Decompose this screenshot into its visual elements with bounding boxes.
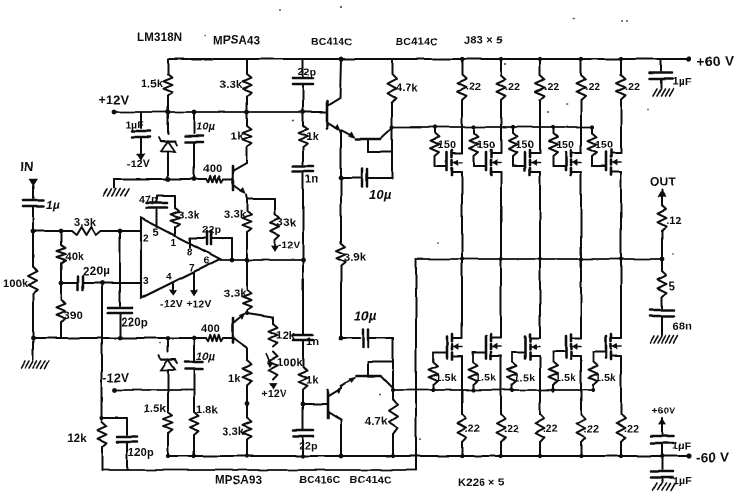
label 1.5k K226-3 [514, 372, 535, 384]
label 3.3k mid-upper [224, 209, 247, 221]
wire +12V bus [114, 111, 326, 113]
label 33k [277, 217, 297, 229]
svg-text:1k: 1k [231, 131, 244, 143]
pin 2 label [143, 233, 149, 244]
wire Q3 collector to rail [340, 59, 341, 98]
node OUT bus dot 3 [538, 257, 542, 261]
svg-text:1.5k: 1.5k [475, 372, 496, 384]
potentiometer 100k [266, 352, 278, 380]
svg-text:150: 150 [516, 139, 534, 151]
transistor Q2 MPSA93 [233, 313, 247, 348]
node center-output junction [301, 258, 306, 263]
resistor 1.5k gate K226-2 [469, 362, 478, 390]
resistor 150 gate J83-4 [549, 127, 558, 156]
svg-text:.22: .22 [543, 423, 558, 435]
resistor .22 source K226-3 [536, 362, 545, 456]
svg-text:10µ: 10µ [369, 187, 392, 202]
label 10u (top) [196, 121, 216, 133]
label .22 K226-3 lower [543, 423, 558, 435]
label 1.5k [141, 78, 164, 90]
capacitor 47p comp [147, 196, 175, 227]
svg-text:4.7k: 4.7k [396, 82, 419, 94]
node zener lower junction [166, 336, 171, 341]
svg-text:4: 4 [166, 272, 172, 283]
svg-text:.22: .22 [625, 81, 640, 93]
node center lower junction [301, 402, 306, 407]
label OUT [650, 175, 676, 189]
pin 3 label [143, 276, 149, 287]
resistor 1.5k (from +60V to +12V node) [164, 59, 173, 112]
wire Q5 collector to rail [340, 420, 342, 456]
label 4.7k lower [365, 416, 388, 428]
svg-text:1.5k: 1.5k [435, 372, 456, 384]
node lower rail dot K226-5 [619, 454, 623, 458]
svg-text:BC414C: BC414C [311, 36, 353, 48]
wire -12V to Q5 base [303, 403, 328, 405]
wire J83-5 source to OUT bus [620, 178, 622, 259]
node gate bus tap J83-4 [551, 125, 555, 129]
svg-text:12k: 12k [67, 433, 87, 445]
svg-text:1µF: 1µF [673, 475, 692, 487]
label 1.5k K226-1 [435, 372, 456, 384]
label 120p [128, 447, 154, 459]
label 3.3k mid-lower [224, 288, 247, 300]
svg-text:.22: .22 [544, 81, 559, 93]
node rail dot J83-4 [579, 57, 583, 61]
resistor 1k center upper [299, 112, 308, 164]
svg-text:1k: 1k [306, 375, 319, 387]
resistor 1k (MPSA43 collector) [243, 112, 252, 163]
label -60 V [696, 450, 729, 465]
svg-text:4.7k: 4.7k [365, 416, 388, 428]
label 220u [83, 266, 110, 278]
label J83 x 5 [464, 35, 502, 47]
label 5 [669, 281, 676, 293]
svg-text:1.5k: 1.5k [514, 372, 535, 384]
resistor 12k feedback [98, 422, 107, 470]
label 390 [64, 310, 83, 322]
svg-text:OUT: OUT [650, 175, 676, 189]
svg-text:3: 3 [143, 276, 149, 287]
node -12V terminal dot [113, 388, 118, 393]
speck marks [159, 6, 674, 440]
node Q4 collector junction [390, 125, 394, 129]
label 1k MPSA93 [228, 373, 241, 385]
wire K226-1 source to OUT bus [461, 259, 463, 333]
svg-text:3.9k: 3.9k [344, 252, 367, 264]
resistor 150 gate J83-2 [470, 127, 479, 156]
node Q5 rail dot [339, 454, 344, 459]
label BC414C (second) [396, 36, 438, 48]
label 10u lower drive [354, 308, 377, 323]
mosfet K226-5 [593, 333, 621, 362]
svg-text:1n: 1n [305, 173, 318, 185]
svg-text:+12V: +12V [261, 388, 287, 400]
resistor .12 [658, 205, 667, 259]
node gate bus tap J83-1 [433, 125, 437, 129]
label 3.3k bottom [222, 426, 245, 438]
svg-text:390: 390 [64, 310, 83, 322]
label 47p [139, 194, 158, 206]
capacitor 10u (+12V bypass) [185, 110, 203, 179]
resistor 1.5k gate K226-5 [589, 362, 598, 390]
capacitor 22p lower [293, 404, 313, 456]
resistor 150 gate J83-5 [588, 127, 597, 156]
wire +60V top supply rail [168, 58, 689, 60]
capacitor 1u input [23, 200, 43, 231]
resistor 1.5k gate K226-4 [549, 362, 558, 390]
transistor Q5 BC416C bottom [328, 387, 342, 421]
resistor 4.7k upper [388, 59, 397, 127]
label BC414C bottom [350, 474, 392, 486]
mosfet K226-3 [512, 333, 540, 362]
svg-text:.22: .22 [584, 423, 599, 435]
capacitor 68n [650, 310, 674, 335]
label 3.3k input [74, 217, 97, 229]
node lower rail dot K226-2 [499, 454, 503, 458]
resistor .22 source K226-2 [497, 362, 506, 456]
resistor 3.3k comp [171, 196, 180, 236]
pin 5 label [153, 227, 159, 239]
svg-text:400: 400 [203, 163, 222, 175]
resistor 3.3k (to -60V rail) [243, 404, 252, 456]
node lower gate bus tap K226-5 [591, 388, 595, 392]
svg-text:MPSA93: MPSA93 [215, 475, 262, 487]
wire -12V bus [115, 389, 194, 391]
svg-text:40k: 40k [65, 251, 85, 263]
resistor 1.5k lower [164, 390, 173, 456]
label .12 [666, 215, 682, 227]
wire J83-4 source to OUT bus [580, 178, 582, 259]
label 10u upper drive [369, 187, 392, 202]
transistor Q1 MPSA43 [233, 163, 247, 199]
zener diode (+12V clamp) [159, 110, 177, 179]
resistor 1.5k gate K226-1 [429, 362, 438, 390]
capacitor 1n lower [293, 260, 313, 340]
node OUT bus dot 1 [460, 257, 464, 261]
svg-text:.22: .22 [466, 81, 481, 93]
wire MPSA93 emitter branch [247, 313, 273, 324]
wire K226-2 source to OUT bus [500, 259, 502, 333]
node 1k/-wire junction [245, 402, 250, 407]
node 4.7k rail dot lower [391, 454, 395, 458]
svg-text:BC416C: BC416C [299, 474, 341, 486]
svg-text:-60 V: -60 V [696, 450, 729, 465]
label .22 K226-5 lower [624, 423, 639, 435]
label IN [20, 159, 33, 174]
transistor Q3 BC414C top [327, 98, 341, 131]
svg-text:100k: 100k [3, 278, 29, 290]
node OUT bus dot 2 [499, 257, 503, 261]
label BC416C [299, 474, 341, 486]
node OUT bus dot 4 [579, 257, 583, 261]
svg-text:MPSA43: MPSA43 [213, 35, 260, 47]
mosfet J83-5 [592, 148, 621, 178]
label 100k [3, 278, 29, 290]
capacitor 1uF +60V decoupling [650, 59, 672, 88]
capacitor 1uF upper at -60V [651, 418, 673, 456]
svg-text:1k: 1k [228, 373, 241, 385]
label LM318N [137, 32, 182, 44]
label .22 K226-1 lower [465, 423, 480, 435]
zener diode (-12V clamp) [159, 338, 177, 390]
node gate bus tap J83-3 [511, 125, 515, 129]
svg-text:22p: 22p [202, 224, 221, 236]
svg-text:1.5k: 1.5k [555, 372, 576, 384]
node feedback tap on pin3 wire [100, 281, 105, 286]
resistor 100k input to ground [29, 231, 38, 338]
svg-text:1µF: 1µF [125, 119, 144, 131]
label .22 J83-3 [544, 81, 559, 93]
node MPSA93 emitter junction [245, 311, 249, 315]
svg-text:22p: 22p [298, 66, 317, 78]
svg-text:3.3k: 3.3k [224, 209, 247, 221]
node OUT bus dot 5 [619, 257, 623, 261]
label 1k center lower [306, 375, 319, 387]
node lower gate bus tap K226-4 [551, 388, 555, 392]
resistor 40k [57, 231, 66, 283]
svg-text:10µ: 10µ [354, 308, 377, 323]
svg-text:K226 × 5: K226 × 5 [458, 477, 505, 489]
capacitor 120p [117, 418, 137, 470]
label 150 J83-3 [516, 139, 534, 151]
mosfet J83-1 [435, 148, 462, 178]
label 150 J83-1 [438, 139, 456, 151]
wire MPSA43 emitter branch [247, 199, 275, 214]
label 150 J83-2 [477, 139, 495, 151]
label 220p [121, 317, 148, 329]
pin 1 label [171, 238, 177, 249]
svg-text:-12V: -12V [127, 158, 150, 170]
node output-3.3k junction [245, 258, 250, 263]
svg-text:5: 5 [153, 227, 159, 239]
label .22 J83-5 [625, 81, 640, 93]
pin 7 label [189, 263, 195, 274]
svg-text:3.3k: 3.3k [222, 426, 245, 438]
node rail dot J83-5 [619, 57, 623, 61]
svg-text:-12V: -12V [278, 240, 300, 251]
resistor .22 source K226-1 [458, 362, 467, 456]
capacitor 22p (rail to +12V wire) [293, 59, 313, 112]
node 3.3k rail dot [245, 454, 249, 458]
resistor 3.3k input [72, 227, 101, 235]
resistor 5 (zobel) [658, 259, 667, 308]
label 1uF -60V upper [672, 440, 691, 452]
wire upper ground bus [114, 178, 206, 180]
label 1u input [46, 198, 60, 212]
node 220p-ground junction [118, 336, 123, 341]
svg-text:220µ: 220µ [83, 266, 110, 278]
svg-text:+12V: +12V [99, 93, 130, 107]
label -12V 33k [278, 240, 300, 251]
label 100k pot [277, 357, 303, 369]
label BC414C (first) [311, 36, 353, 48]
svg-text:1n: 1n [306, 336, 319, 348]
wire 4.7k column lower [392, 338, 394, 399]
resistor .22 drain J83-3 [536, 59, 545, 148]
svg-text:.12: .12 [666, 215, 682, 227]
resistor 1k center lower [299, 340, 308, 404]
node 40k-390-220u junction [59, 281, 64, 286]
svg-text:-12V: -12V [160, 298, 183, 310]
svg-text:1.5k: 1.5k [595, 372, 616, 384]
pin 6 label [203, 255, 209, 267]
label 1n upper [305, 173, 318, 185]
label 22p comp [202, 224, 221, 236]
svg-text:+60V: +60V [652, 406, 676, 417]
node Q6 collector junction [391, 388, 395, 392]
mosfet J83-3 [513, 148, 540, 178]
transistor Q4 BC414C sideways [341, 128, 392, 152]
resistor 150 gate J83-1 [431, 127, 440, 156]
svg-text:2: 2 [143, 233, 149, 244]
capacitor 10u (-12V bypass) [185, 338, 203, 390]
capacitor 1n upper [293, 166, 313, 260]
svg-text:33k: 33k [277, 217, 297, 229]
node rail dot J83-2 [499, 57, 503, 61]
label .22 K226-2 lower [504, 423, 519, 435]
svg-text:1µF: 1µF [672, 440, 691, 452]
label 1.5k K226-2 [475, 372, 496, 384]
input arrow [29, 179, 38, 198]
label -12V (under 1uF arrow) [127, 158, 150, 170]
resistor .22 drain J83-1 [458, 59, 467, 148]
label 400 lower [201, 323, 220, 335]
node gate bus tap J83-5 [590, 125, 594, 129]
label 1.5k K226-4 [555, 372, 576, 384]
node 10u-ground junction [192, 177, 197, 182]
svg-text:1k: 1k [306, 131, 319, 143]
pin 4 wire to -12V [169, 284, 177, 296]
label MPSA43 [213, 35, 260, 47]
svg-text:100k: 100k [277, 357, 303, 369]
label +12V [99, 93, 130, 107]
svg-text:3.3k: 3.3k [220, 79, 243, 91]
label 1.5k K226-5 [595, 372, 616, 384]
node lower rail dot K226-1 [460, 454, 464, 458]
ground -60V cap [653, 483, 675, 490]
node zener-ground junction [166, 177, 171, 182]
wire lower gate drive bus [393, 389, 593, 391]
svg-text:22p: 22p [299, 440, 318, 452]
wire 400 to MPSA43 base [114, 176, 233, 182]
resistor 33k [271, 214, 280, 240]
mosfet J83-4 [553, 148, 581, 178]
wire op-amp output [220, 259, 301, 261]
node lower rail dot K226-3 [538, 454, 542, 458]
capacitor 220u (series) [78, 276, 83, 290]
svg-text:BC414C: BC414C [396, 36, 438, 48]
svg-text:.22: .22 [465, 423, 480, 435]
node input junction [31, 229, 36, 234]
label 22p upper [298, 66, 317, 78]
node +60V terminal dot [686, 56, 691, 61]
svg-text:1.8k: 1.8k [196, 404, 219, 416]
label 4.7k upper [396, 82, 419, 94]
svg-text:8: 8 [187, 247, 193, 258]
pin 4 label [166, 272, 172, 283]
ground (upper bias) [103, 179, 129, 196]
svg-text:J83 × 5: J83 × 5 [464, 35, 502, 47]
resistor 150 gate J83-3 [509, 127, 518, 156]
capacitor 10u lower (drive) [341, 329, 393, 347]
wire +12V to T1 base [303, 111, 327, 113]
svg-text:10µ: 10µ [196, 121, 216, 133]
label .22 J83-2 [505, 81, 520, 93]
label +60 V [697, 54, 734, 69]
svg-text:LM318N: LM318N [137, 32, 182, 44]
wire J83-3 source to OUT bus [539, 178, 541, 259]
svg-text:5: 5 [669, 281, 676, 293]
wire lower ground bus [33, 337, 206, 339]
capacitor 10u upper (drive) [341, 169, 392, 187]
node 10u left junction [339, 176, 344, 181]
svg-text:3.3k: 3.3k [224, 288, 247, 300]
capacitor 220p to ground wire [108, 229, 132, 338]
node +12V terminal dot [112, 110, 117, 115]
label 150 J83-4 [556, 139, 574, 151]
label +12V op-amp [186, 298, 212, 310]
label 1uF (top right) [672, 76, 692, 88]
resistor .22 drain J83-4 [577, 59, 586, 148]
node 22p-output junction [230, 258, 235, 263]
svg-text:IN: IN [20, 159, 33, 174]
capacitor 1uF (+12V to -12V) [132, 112, 150, 161]
mosfet K226-2 [473, 333, 501, 362]
node 22p junction [301, 110, 306, 115]
resistor 3.3k (output node down) [243, 260, 252, 313]
svg-text:+60 V: +60 V [697, 54, 734, 69]
label 1uF (bias) [125, 119, 144, 131]
arrow pot to +12V [269, 384, 277, 390]
wire -60V supply rail [167, 455, 689, 457]
label K226 x 5 [458, 477, 505, 489]
svg-text:1µF: 1µF [672, 76, 692, 88]
label 3.3k upper [220, 79, 243, 91]
wire K226-3 source to OUT bus [539, 259, 541, 333]
svg-text:1: 1 [171, 238, 177, 249]
arrow OUT [658, 190, 667, 205]
mosfet J83-2 [474, 148, 501, 178]
wire 120p branch [100, 416, 127, 420]
label MPSA93 [215, 475, 262, 487]
ground zobel [650, 336, 678, 343]
capacitor 1uF lower at -60V [651, 456, 673, 482]
label 40k [65, 251, 85, 263]
wire K226-5 source to OUT bus [620, 259, 622, 333]
node rail dot J83-3 [538, 57, 542, 61]
svg-text:47p: 47p [139, 194, 158, 206]
resistor 3.3k (rail to +12V wire) [243, 59, 252, 112]
wire Q3 emitter down [340, 130, 342, 243]
node gate bus tap J83-2 [472, 125, 476, 129]
resistor .22 drain J83-2 [497, 59, 506, 148]
label .22 J83-4 [585, 81, 600, 93]
resistor .22 drain J83-5 [617, 59, 626, 148]
label 3.9k [344, 252, 367, 264]
label 1.8k lower [196, 404, 219, 416]
svg-text:.22: .22 [585, 81, 600, 93]
wire feedback vertical left [101, 283, 103, 420]
node -60V cap junction [660, 454, 664, 458]
node zener rail dot [166, 454, 170, 458]
label 3.3k comp [178, 209, 199, 221]
wire feedback bottom run [102, 469, 416, 471]
label 1k center upper [306, 131, 319, 143]
pin 7 wire to +12V [190, 273, 198, 296]
wire feedback vertical right [415, 259, 417, 470]
wire J83-1 source to OUT bus [461, 178, 463, 259]
